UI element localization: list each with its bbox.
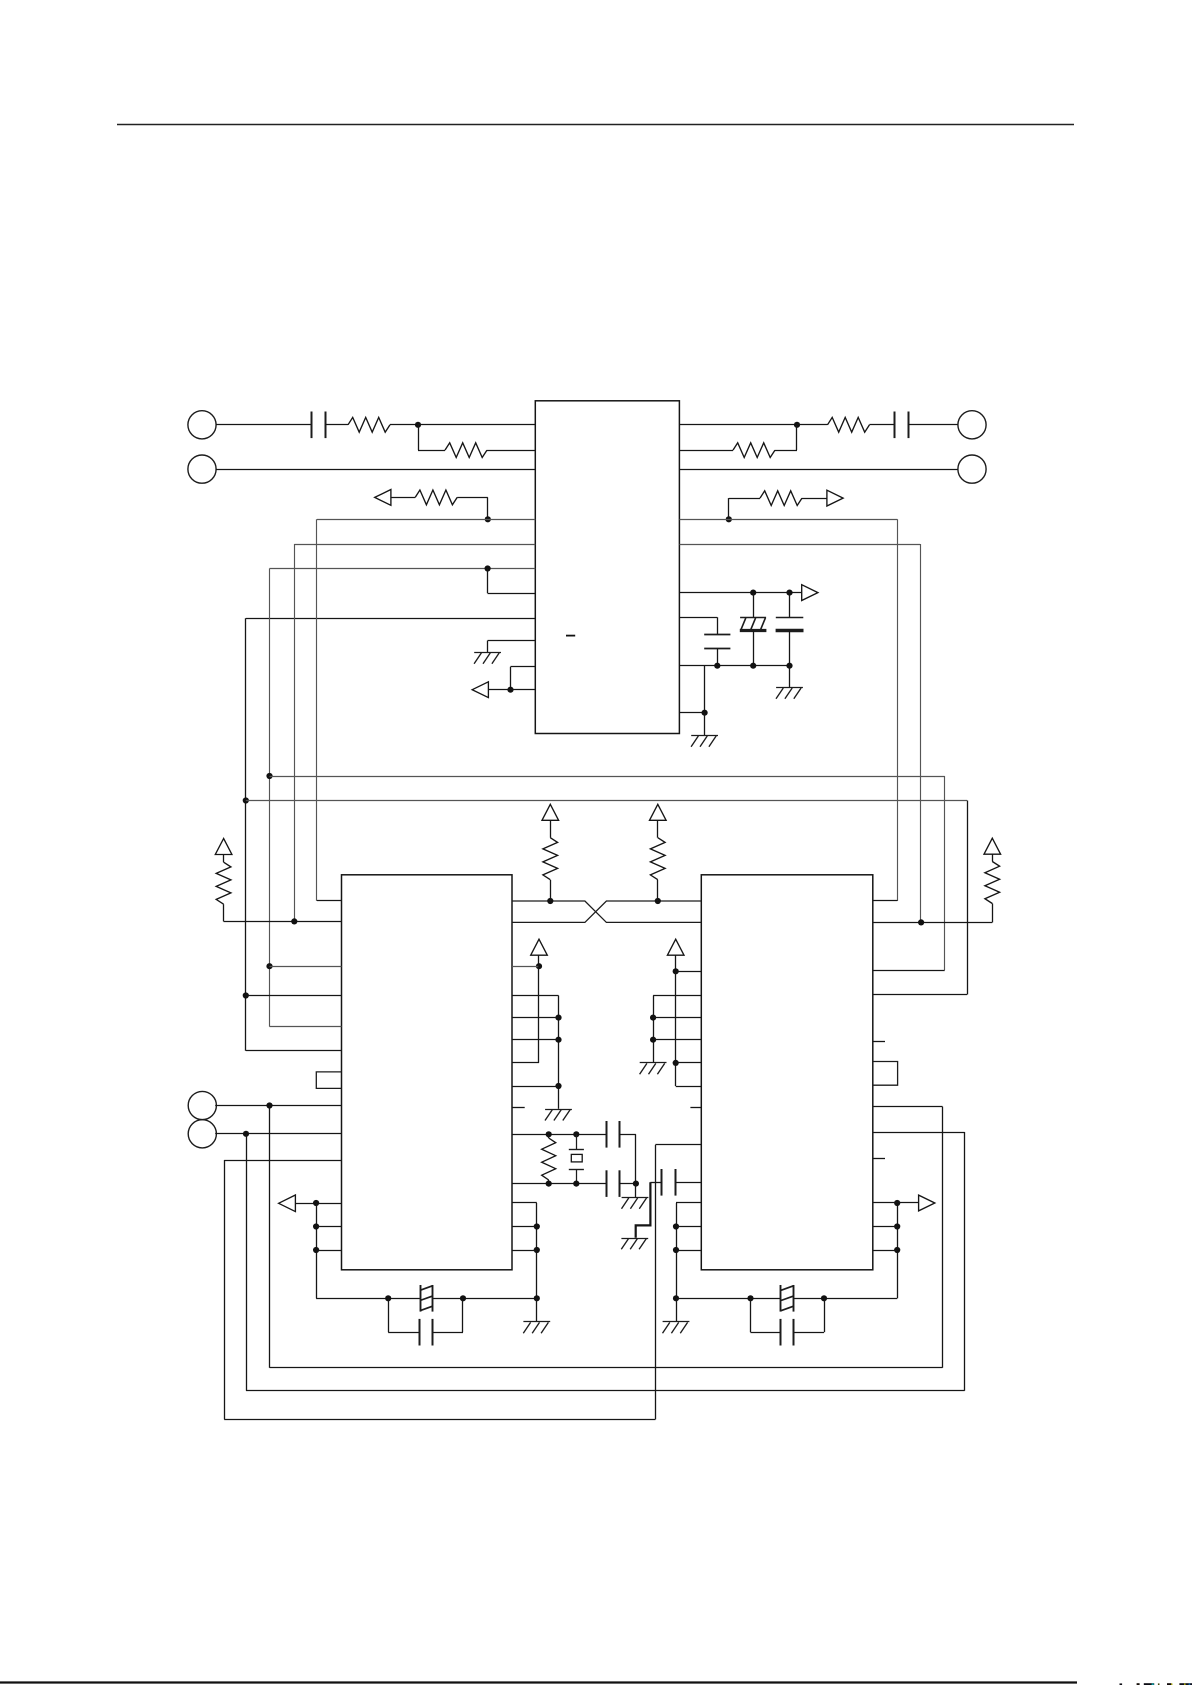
capacitor C1 (312, 412, 326, 439)
wire busL4 end to U2 (246, 1050, 342, 1052)
xtal top junction Y1 (573, 1131, 579, 1137)
xtal drive top wire (512, 1134, 607, 1136)
gnd chain L vertical (558, 996, 560, 1109)
ground G5 (640, 1063, 667, 1075)
wire U3 gnd pin3 (653, 1039, 701, 1041)
cap C10 wire B (794, 1332, 825, 1334)
resistor R11 (542, 1138, 556, 1180)
wire busL4 to U2 pin (246, 995, 342, 997)
U2 NC stub (512, 1107, 525, 1109)
wire U2 gnd pin1 (512, 995, 559, 997)
xtal bottom junction Y1 (573, 1181, 579, 1187)
gnd chain R vertical (653, 996, 655, 1063)
xtal R wire right (794, 1298, 897, 1300)
wire R2 to U1 (487, 450, 535, 452)
bus wire L2 horizontal (294, 544, 535, 546)
ground G8 (523, 1322, 550, 1334)
node F junction (702, 710, 708, 716)
node E junction (786, 590, 792, 596)
node pullup R junction (918, 919, 924, 925)
wire C5 rail to ground (789, 666, 791, 687)
VCC arrow V6 (667, 939, 684, 955)
wire R3 corner (457, 497, 488, 499)
arrow A1 (375, 490, 391, 506)
xtal L junction A (385, 1295, 391, 1301)
xtal L wire right (433, 1298, 537, 1300)
node B junction (794, 422, 800, 428)
wire C1 to R1 (325, 424, 348, 426)
capacitor C2 (895, 412, 909, 439)
rail junction 3 (786, 663, 792, 669)
wire node A to U1 pin (418, 424, 535, 426)
node A5 junction (313, 1200, 319, 1206)
wire R10 down (992, 904, 994, 923)
footer watermark text remnant (1120, 1683, 1192, 1685)
connector J3 (958, 411, 986, 439)
resistor R2 (445, 443, 487, 458)
wire rail drop (704, 666, 706, 713)
node bus1 junction (485, 516, 491, 522)
connector J6 (188, 1120, 216, 1148)
wire U1 to R5 (679, 450, 733, 452)
node L3 junction (485, 565, 491, 571)
long wire net2 horizontal (246, 800, 967, 802)
wire U1 pin 666.8 (511, 666, 536, 668)
wire node B to R4 (797, 424, 828, 426)
wire jog down (510, 667, 512, 690)
wire C4 to rail (753, 631, 755, 666)
resistor R5 (733, 443, 775, 458)
bus wire L1 vertical (316, 519, 318, 901)
bus wire R1 horizontal (679, 519, 897, 521)
wire down to ground G1 (487, 641, 489, 652)
wire C2 to J3 (908, 424, 958, 426)
wire V5 to U2 pin2 (512, 1062, 539, 1064)
osc RR junction 2 (894, 1247, 900, 1253)
wire U2 gnd pin4 (512, 1086, 559, 1088)
node C junction (507, 687, 513, 693)
wire C7 out (619, 1183, 636, 1185)
connector J1 (188, 411, 216, 439)
xtal R junction B (821, 1295, 827, 1301)
wire C3 to rail (717, 649, 719, 666)
loop rail 3 (224, 1419, 655, 1421)
wire node E to C5 (789, 593, 791, 618)
node V5 junction (536, 963, 542, 969)
connector J5 (188, 1091, 216, 1119)
xtal R junction C (673, 1295, 679, 1301)
wire U1 AGND pin (488, 640, 536, 642)
cap C10 wire A (751, 1332, 781, 1334)
loop wire C right vertical (942, 1107, 944, 1368)
wire J5 to U2 (215, 1105, 341, 1107)
node L4 branch junction (243, 797, 249, 803)
wire U2 VDD pin (512, 966, 539, 968)
capacitor C10 (781, 1319, 794, 1346)
wire U3 VDD pin3 (676, 1086, 702, 1088)
node pullup L junction (291, 918, 297, 924)
node R8 junction (547, 898, 553, 904)
wire net1 to U3 pin (873, 970, 945, 972)
wire U1 to J4 (679, 469, 958, 471)
xtal caps junction (633, 1181, 639, 1187)
wire R9 lead (657, 880, 659, 901)
wire busL3 to U2 pin (270, 966, 342, 968)
loop wire D right vertical (964, 1132, 966, 1391)
wire U2 pin 1226 (316, 1226, 341, 1228)
xtal L junction B (460, 1295, 466, 1301)
bus wire R1 vertical (897, 519, 899, 901)
capacitor C6 (607, 1121, 620, 1148)
U3 NC stub (690, 1107, 701, 1109)
osc L junction 1 (313, 1223, 319, 1229)
osc L vertical (316, 1203, 318, 1298)
wire J1 to C1 (216, 424, 312, 426)
wire node C to U1 (488, 689, 535, 691)
VCC arrow V2 (542, 804, 559, 820)
wire V1 to R7 (223, 855, 225, 863)
bus wire L4 horizontal (246, 618, 536, 620)
wire J6 to U2 (215, 1133, 341, 1135)
capacitor C7 (607, 1170, 620, 1197)
wire bus L1 to U2 (317, 900, 342, 902)
U1 part-number dash (566, 635, 575, 637)
wire V5 down (538, 955, 540, 966)
wire U3 pin 1182.3 (675, 1182, 701, 1184)
node A6 junction (894, 1200, 900, 1206)
wire U3 gnd pin1 (653, 995, 701, 997)
VCC arrow V1 (215, 839, 232, 855)
osc R right vertical (897, 1203, 899, 1298)
node L3 branch junction (266, 773, 272, 779)
node busL3 to U2 (266, 963, 272, 969)
wire R8 to V2 (550, 820, 552, 837)
wire net2 to U3 pin (873, 994, 967, 996)
connector J2 (188, 455, 216, 483)
wire R5 to node B (775, 450, 797, 452)
wire U3 pin 1132 (873, 1132, 965, 1134)
wire C5 to rail (789, 631, 791, 666)
resistor R9 (650, 838, 665, 880)
rail wire (679, 665, 789, 667)
wire to ground G9 (676, 1298, 678, 1321)
loop wire C vertical (269, 1106, 271, 1368)
loop rail 2 (246, 1390, 965, 1392)
node J6 junction (243, 1131, 249, 1137)
wire to R2 (418, 450, 445, 452)
cap C8 lead B (462, 1298, 464, 1332)
wire down to C3 (717, 617, 719, 635)
wire R9 to V3 (657, 820, 659, 837)
wire U2 pin 1250 (316, 1250, 341, 1252)
node busL4 to U2 (243, 992, 249, 998)
wire V5 vertical (538, 966, 540, 1063)
R11 lead bottom (548, 1180, 550, 1184)
bus wire L3 vertical (269, 569, 271, 1027)
wire U3 VDD pin (676, 971, 702, 973)
resistor R6 (760, 491, 802, 506)
U2 loop-back notch (316, 1072, 341, 1089)
wire V4 to R10 (992, 854, 994, 861)
wire U3 VDD pin2 (676, 1062, 702, 1064)
wire R4 to C2 (870, 424, 896, 426)
ground G6 (622, 1198, 649, 1209)
capacitor C5 polarized (776, 618, 804, 631)
VCC arrow V4 (984, 838, 1001, 854)
wire L3 jog down (487, 569, 489, 594)
xtal R wire left (676, 1298, 781, 1300)
bus wire R2 vertical (920, 544, 922, 922)
wire A5 to U2 (295, 1203, 341, 1205)
wire R8 lead (550, 880, 552, 901)
bus wire L1 horizontal (317, 519, 535, 521)
loop wire D vertical (246, 1134, 248, 1391)
wire node B branch down (796, 425, 798, 450)
resistor R3 (415, 490, 457, 505)
wire up from bus R1 (728, 498, 730, 519)
VCC arrow V3 (650, 804, 667, 820)
wire node A down (418, 425, 420, 450)
bus wire L4 vertical (245, 618, 247, 1050)
wire node F to ground (704, 713, 706, 735)
wire R10 to U3 (873, 922, 993, 924)
wire C6 corner down (635, 1134, 637, 1183)
wire busL3 end to U2 (270, 1026, 342, 1028)
node D junction (750, 590, 756, 596)
arrow A6 (919, 1195, 935, 1211)
wire caps to ground G6 (635, 1184, 637, 1197)
U3 NC stub 2 (873, 1041, 885, 1043)
capacitor C4 tantalum (740, 618, 767, 631)
xtal L junction C (534, 1295, 540, 1301)
resistor R4 (828, 417, 870, 432)
resistor R7 (216, 862, 231, 904)
wire U3 pin 1226 (676, 1226, 701, 1228)
crystal Y3 (781, 1285, 794, 1312)
wire down to bus1 (487, 497, 489, 519)
wire R6 to A2 (802, 498, 827, 500)
U3 NC stub 3 (873, 1158, 885, 1160)
gnd chain junction 3 (555, 1083, 561, 1089)
U3 loop-back notch (873, 1062, 898, 1086)
osc RR junction 1 (894, 1223, 900, 1229)
wire R7 down (223, 904, 225, 921)
wire node D to C4 (753, 593, 755, 618)
cap C8 lead A (388, 1298, 390, 1332)
wire U2 pin 1250 R (512, 1250, 537, 1252)
loop rail 1 (270, 1367, 943, 1369)
crystal Y2 (420, 1285, 433, 1312)
bus wire L3 horizontal (270, 568, 536, 570)
IC U3 (701, 875, 873, 1270)
capacitor C8 (420, 1319, 433, 1346)
resistor R1 (348, 417, 390, 432)
resistor R10 (985, 862, 1000, 904)
arrow A2 (827, 490, 843, 506)
wire U3 pin 1250 R (873, 1250, 897, 1252)
osc LR junction 2 (534, 1247, 540, 1253)
wire U1 out to A4 (679, 592, 801, 594)
xtal top junction R11 (546, 1131, 552, 1137)
long wire net1 vertical (944, 776, 946, 970)
osc R junction 1 (673, 1223, 679, 1229)
wire U1 pin to node F (679, 712, 704, 714)
gnd chain R junction 1 (650, 1015, 656, 1021)
wire C9 step to ground (636, 1182, 651, 1237)
wire U3 pin 1226 R (873, 1226, 897, 1228)
wire A1 to R3 (391, 497, 415, 499)
wire U1 pin to C3 (679, 617, 717, 619)
xtal bottom junction R11 (546, 1181, 552, 1187)
rail junction 1 (714, 663, 720, 669)
arrow A3 (472, 682, 488, 698)
wire U3 pin 1250 (676, 1250, 701, 1252)
node V6 junction (673, 968, 679, 974)
cap C10 lead B (824, 1298, 826, 1332)
crystal Y1 (569, 1134, 584, 1183)
node bus R1 junction (726, 516, 732, 522)
wire U3 gnd pin2 (653, 1017, 701, 1019)
arrow A5 (279, 1195, 296, 1212)
ground G2 (691, 736, 718, 747)
capacitor C9 (662, 1169, 676, 1196)
ground G3 (776, 688, 803, 699)
wire R1 to node A (390, 424, 418, 426)
connector J4 (958, 455, 986, 483)
loop wire F vertical (655, 1145, 657, 1420)
wire U1 to node B (679, 424, 797, 426)
arrow A4 (802, 585, 818, 601)
wire U2 pin 1160 (224, 1160, 341, 1162)
VCC arrow V5 (531, 939, 548, 955)
IC U1 (535, 401, 679, 734)
bus wire R2 horizontal (679, 544, 920, 546)
wire to ground G8 (536, 1298, 538, 1321)
gnd chain junction 2 (555, 1037, 561, 1043)
long wire net2 vertical (967, 801, 969, 995)
capacitor C3 (704, 635, 730, 649)
wire U2 osc pin (512, 1202, 537, 1204)
wire V6 down (675, 955, 677, 971)
resistor R8 (543, 838, 558, 880)
IC U2 (342, 875, 513, 1270)
rail junction 2 (750, 663, 756, 669)
ground G7 (621, 1239, 648, 1250)
loop wire E vertical (224, 1160, 226, 1419)
ground G4 (545, 1110, 572, 1121)
gnd chain R junction 2 (650, 1037, 656, 1043)
wire U2 gnd pin2 (512, 1017, 559, 1019)
cap C10 lead A (750, 1298, 752, 1332)
wire U3 to A6 (873, 1202, 919, 1204)
wire U2 pin 1226 R (512, 1226, 537, 1228)
wire U3 pin 1144.9 (655, 1144, 701, 1146)
wire jog to U1 pin (488, 593, 536, 595)
osc L junction 2 (313, 1247, 319, 1253)
osc R vertical (676, 1203, 678, 1298)
wire C9 out (650, 1182, 662, 1184)
gnd chain junction 1 (555, 1015, 561, 1021)
xtal L wire left (316, 1298, 420, 1300)
wire C6 out (619, 1134, 636, 1136)
long wire net1 horizontal (270, 776, 945, 778)
node R9 junction (655, 898, 661, 904)
xtal R junction A (747, 1295, 753, 1301)
cap C8 wire B (433, 1332, 464, 1334)
ground G9 (663, 1322, 690, 1334)
ground G1 (474, 653, 501, 664)
wire J2 to U1 (216, 469, 536, 471)
wire bus R1 to U3 (873, 900, 898, 902)
crossover wires (512, 901, 701, 922)
wire U3 pin 1106.6 (873, 1106, 943, 1108)
R11 lead top (548, 1134, 550, 1138)
bus wire L2 vertical (294, 544, 296, 921)
node V6 junction 2 (673, 1060, 679, 1066)
wire R7 to U2 (224, 921, 342, 923)
wire to R6 (729, 498, 760, 500)
osc L right vertical (536, 1203, 538, 1298)
cap C8 wire A (388, 1332, 420, 1334)
wire U2 gnd pin3 (512, 1039, 559, 1041)
xtal drive bottom wire (512, 1183, 607, 1185)
osc R junction 2 (673, 1247, 679, 1253)
wire U3 osc pin (676, 1202, 701, 1204)
osc LR junction 1 (534, 1223, 540, 1229)
wire V6 vertical (675, 971, 677, 1086)
node A junction (415, 422, 421, 428)
node J5 junction (266, 1102, 272, 1108)
